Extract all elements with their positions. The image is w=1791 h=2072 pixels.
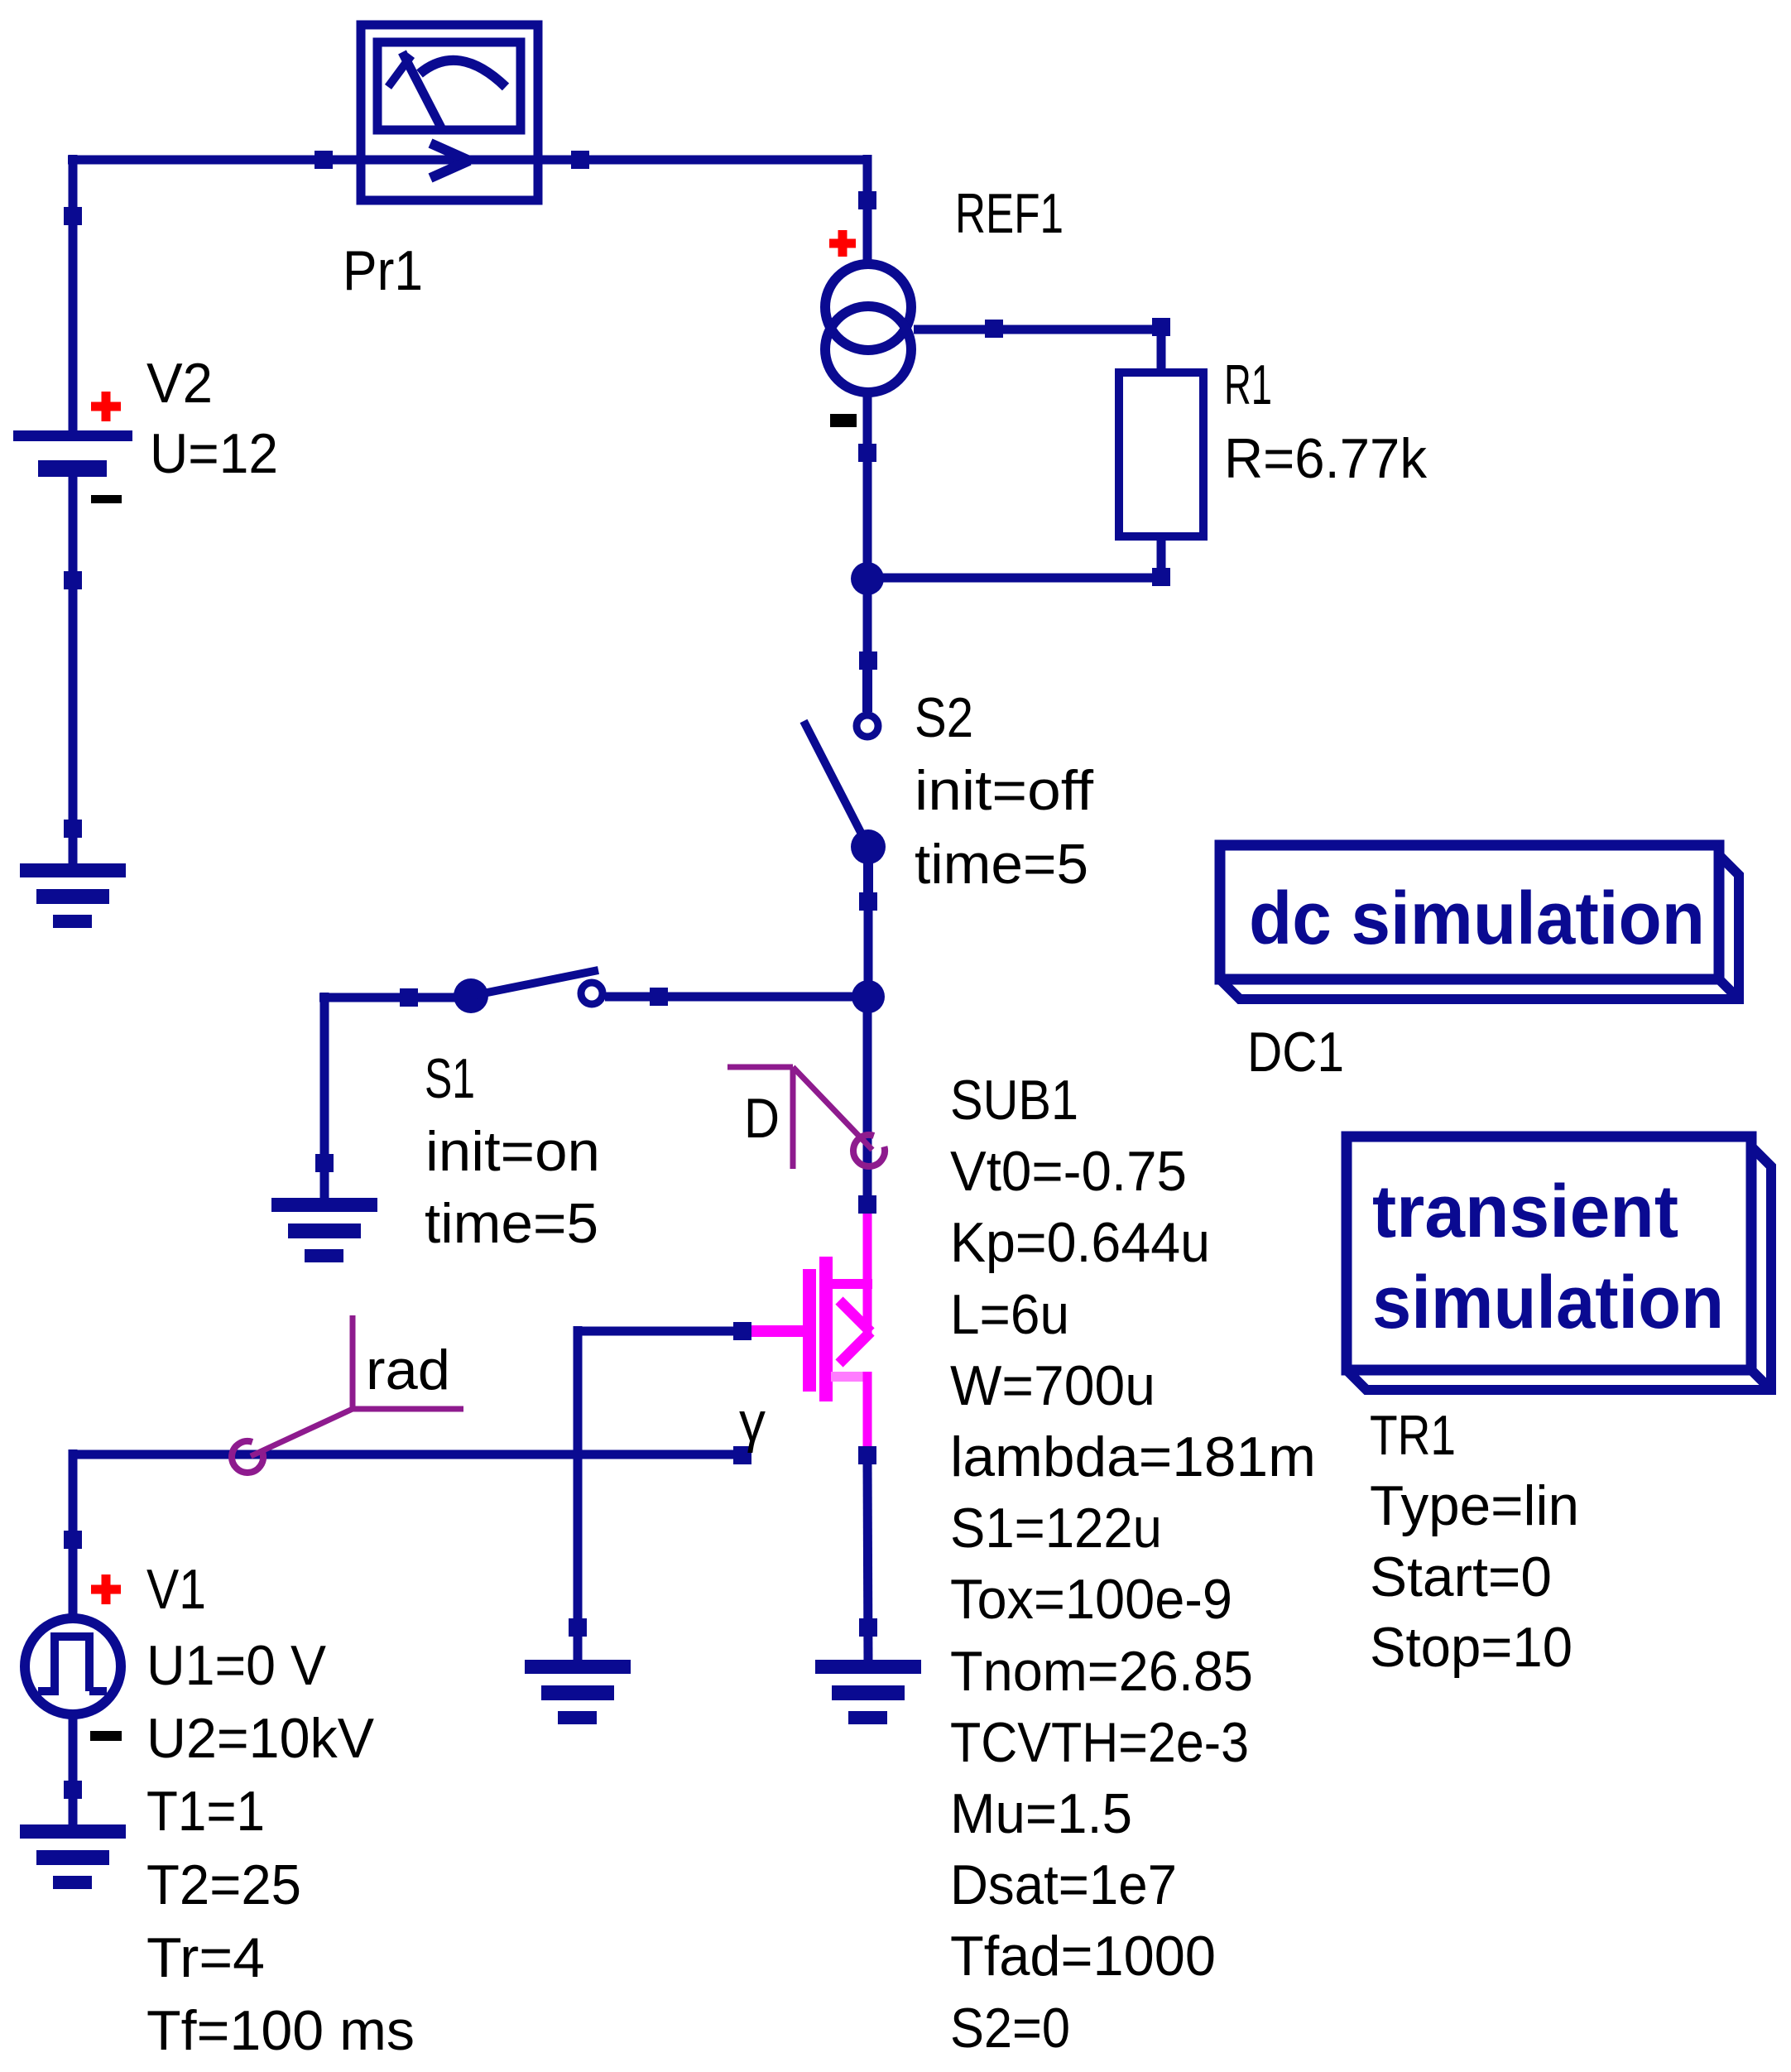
svg-text:time=5: time=5 xyxy=(915,833,1088,896)
wire REF1 right port to R1 top xyxy=(914,325,1161,334)
terminal REF1 right port xyxy=(985,320,1003,338)
node rad label hook xyxy=(232,1315,463,1473)
svg-text:SUB1: SUB1 xyxy=(950,1069,1078,1132)
svg-text:Dsat=1e7: Dsat=1e7 xyxy=(950,1853,1177,1916)
wire V1 top lead xyxy=(69,1449,78,1615)
wire gate down to ground xyxy=(574,1326,583,1663)
svg-text:R1: R1 xyxy=(1224,353,1272,416)
wire top horizontal V2 to REF1 xyxy=(68,156,867,165)
svg-text:init=on: init=on xyxy=(425,1120,600,1183)
node D text xyxy=(744,1087,780,1150)
value init=on xyxy=(425,1120,600,1183)
svg-text:simulation: simulation xyxy=(1372,1262,1724,1344)
svg-text:DC1: DC1 xyxy=(1247,1021,1344,1084)
transistor SUB1 (depletion MOSFET) xyxy=(751,1209,872,1450)
svg-text:REF1: REF1 xyxy=(955,182,1064,245)
terminal REF1 bottom port xyxy=(858,444,876,462)
terminal ground S1 xyxy=(315,1154,334,1172)
svg-text:dc simulation: dc simulation xyxy=(1249,877,1705,960)
svg-text:Pr1: Pr1 xyxy=(343,239,423,302)
value time=5 of S1 xyxy=(425,1192,598,1255)
node rad text xyxy=(366,1339,450,1401)
label S2 xyxy=(915,686,973,749)
svg-text:rad: rad xyxy=(366,1339,450,1401)
value Tf=100 ms xyxy=(146,1999,415,2062)
terminal REF1 top port xyxy=(858,191,876,209)
label SUB1 xyxy=(950,1069,1078,1132)
svg-text:T1=1: T1=1 xyxy=(146,1780,265,1843)
wire R1 bottom stub xyxy=(1157,532,1166,583)
polarity minus V1 xyxy=(90,1731,122,1741)
polarity minus REF1 xyxy=(830,414,857,427)
voltage source V1 (pulse) xyxy=(25,1618,121,1714)
svg-text:S1=122u: S1=122u xyxy=(950,1497,1162,1560)
value T2=25 xyxy=(146,1853,301,1916)
polarity minus V2 xyxy=(91,495,122,503)
value Type=lin xyxy=(1370,1474,1579,1537)
switch S2 xyxy=(804,656,886,906)
voltage source V2 (battery) xyxy=(13,430,132,477)
wire S1 corner to pole xyxy=(319,993,471,1002)
value init=off xyxy=(915,759,1093,822)
wire REF1 bottom to junction xyxy=(863,395,872,584)
terminal V2 plus port xyxy=(64,207,82,225)
value Start=0 xyxy=(1370,1546,1552,1608)
value U1=0 V xyxy=(146,1634,327,1697)
wire junction to MOSFET drain xyxy=(863,992,872,1204)
wire R1 bottom to junction xyxy=(867,574,1166,583)
svg-text:time=5: time=5 xyxy=(425,1192,598,1255)
svg-text:S2: S2 xyxy=(915,686,973,749)
svg-text:R=6.77k: R=6.77k xyxy=(1224,427,1428,490)
svg-text:TR1: TR1 xyxy=(1370,1404,1456,1467)
polarity plus V1 xyxy=(91,1574,121,1604)
value U=12 xyxy=(150,422,278,485)
terminal V1 plus port xyxy=(64,1531,82,1549)
svg-text:U1=0 V: U1=0 V xyxy=(146,1634,327,1697)
wire junction to S2 top xyxy=(863,574,872,714)
svg-text:Stop=10: Stop=10 xyxy=(1370,1616,1573,1679)
svg-text:Tf=100 ms: Tf=100 ms xyxy=(146,1999,415,2062)
svg-text:Tr=4: Tr=4 xyxy=(146,1926,265,1989)
value Kp=0.644u of SUB1 xyxy=(950,1211,1210,1274)
current source REF1 xyxy=(825,264,911,392)
wire REF1 top lead xyxy=(863,155,872,266)
node junction R1-bottom with main branch xyxy=(851,562,884,595)
value Tfad=1000 of SUB1 xyxy=(950,1925,1216,1988)
wire V1 bottom to ground xyxy=(69,1718,78,1828)
value Dsat=1e7 of SUB1 xyxy=(950,1853,1177,1916)
svg-text:γ: γ xyxy=(739,1391,766,1454)
wire gate horizontal xyxy=(578,1327,733,1336)
value U2=10kV xyxy=(146,1707,375,1770)
svg-text:Mu=1.5: Mu=1.5 xyxy=(950,1782,1132,1845)
label V1 xyxy=(146,1558,206,1621)
svg-text:Type=lin: Type=lin xyxy=(1370,1474,1579,1537)
label V2 xyxy=(146,352,213,415)
svg-text:U2=10kV: U2=10kV xyxy=(146,1707,375,1770)
value Tnom=26.85 of SUB1 xyxy=(950,1640,1253,1703)
terminal MOSFET gate port xyxy=(733,1322,751,1340)
value Tox=100e-9 of SUB1 xyxy=(950,1568,1232,1631)
wire S1 corner down to ground xyxy=(320,993,329,1201)
value S2=0 of SUB1 xyxy=(950,1997,1070,2060)
terminal node gamma open wire end xyxy=(733,1446,751,1464)
svg-text:TCVTH=2e-3: TCVTH=2e-3 xyxy=(950,1711,1249,1774)
terminal S1 left port xyxy=(400,988,418,1007)
svg-text:V2: V2 xyxy=(146,352,213,415)
svg-text:Kp=0.644u: Kp=0.644u xyxy=(950,1211,1210,1274)
svg-text:V1: V1 xyxy=(146,1558,206,1621)
value time=5 of S2 xyxy=(915,833,1088,896)
svg-text:D: D xyxy=(744,1087,780,1150)
svg-text:Vt0=-0.75: Vt0=-0.75 xyxy=(950,1140,1187,1203)
terminal Pr1 left port xyxy=(315,151,333,169)
polarity plus REF1 xyxy=(829,230,856,257)
terminal R1 top port xyxy=(1152,318,1170,336)
svg-text:lambda=181m: lambda=181m xyxy=(950,1425,1316,1488)
terminal S2 top port xyxy=(859,651,877,670)
value R=6.77k xyxy=(1224,427,1428,490)
label TR1 xyxy=(1370,1404,1456,1467)
wire V2 minus to ground xyxy=(69,477,78,867)
label REF1 xyxy=(955,182,1064,245)
value L=6u of SUB1 xyxy=(950,1283,1069,1346)
value Mu=1.5 of SUB1 xyxy=(950,1782,1132,1845)
value Stop=10 xyxy=(1370,1616,1573,1679)
svg-text:S2=0: S2=0 xyxy=(950,1997,1070,2060)
svg-text:init=off: init=off xyxy=(915,759,1093,822)
svg-text:L=6u: L=6u xyxy=(950,1283,1069,1346)
ground S1 xyxy=(271,1198,377,1262)
svg-text:Tnom=26.85: Tnom=26.85 xyxy=(950,1640,1253,1703)
terminal MOSFET source port xyxy=(858,1446,876,1464)
node junction S1 with main branch xyxy=(852,980,885,1013)
ground V1 xyxy=(20,1824,126,1889)
terminal R1 bottom port xyxy=(1152,568,1170,586)
wire S1 contact to junction xyxy=(605,993,868,1002)
resistor R1 xyxy=(1119,373,1203,536)
value lambda=181m of SUB1 xyxy=(950,1425,1316,1488)
svg-text:W=700u: W=700u xyxy=(950,1354,1155,1417)
svg-text:Start=0: Start=0 xyxy=(1370,1546,1552,1608)
value Vt0=-0.75 of SUB1 xyxy=(950,1140,1187,1203)
ground V2 xyxy=(20,863,126,928)
terminal MOSFET drain port xyxy=(858,1195,876,1214)
terminal S1 right port xyxy=(650,988,668,1006)
switch S1 xyxy=(454,970,603,1013)
wire V1 to gamma node xyxy=(73,1450,742,1459)
ground gate branch xyxy=(525,1660,631,1724)
svg-text:Tfad=1000: Tfad=1000 xyxy=(950,1925,1216,1988)
transient simulation block TR1 xyxy=(1347,1137,1771,1390)
ammeter probe Pr1 xyxy=(361,25,538,200)
svg-text:Tox=100e-9: Tox=100e-9 xyxy=(950,1568,1232,1631)
value T1=1 xyxy=(146,1780,265,1843)
wire V2 branch vertical xyxy=(69,155,78,430)
wire MOSFET source to ground xyxy=(867,1462,868,1663)
value TCVTH=2e-3 of SUB1 xyxy=(950,1711,1249,1774)
polarity plus V2 xyxy=(91,392,121,421)
label R1 xyxy=(1224,353,1272,416)
svg-text:U=12: U=12 xyxy=(150,422,278,485)
label DC1 xyxy=(1247,1021,1344,1084)
value Tr=4 xyxy=(146,1926,265,1989)
terminal ground gate branch xyxy=(569,1618,587,1637)
label Pr1 xyxy=(343,239,423,302)
terminal Pr1 right port xyxy=(571,151,589,169)
svg-text:transient: transient xyxy=(1372,1171,1678,1253)
ground MOSFET source branch xyxy=(815,1660,921,1724)
node gamma text xyxy=(739,1391,766,1454)
terminal V1 minus port xyxy=(64,1781,82,1799)
terminal ground source branch xyxy=(859,1618,877,1637)
node D label hook xyxy=(727,1067,885,1169)
svg-text:T2=25: T2=25 xyxy=(146,1853,301,1916)
terminal S2 bottom port xyxy=(859,892,877,911)
dc simulation block DC1 xyxy=(1220,845,1739,999)
svg-text:S1: S1 xyxy=(425,1047,475,1110)
terminal V2 minus port xyxy=(64,571,82,589)
label S1 xyxy=(425,1047,475,1110)
wire S2 pole to S1 junction xyxy=(864,847,873,1002)
value S1=122u of SUB1 xyxy=(950,1497,1162,1560)
terminal ground V2 xyxy=(64,820,82,838)
value W=700u of SUB1 xyxy=(950,1354,1155,1417)
wire R1 top stub xyxy=(1157,325,1166,377)
